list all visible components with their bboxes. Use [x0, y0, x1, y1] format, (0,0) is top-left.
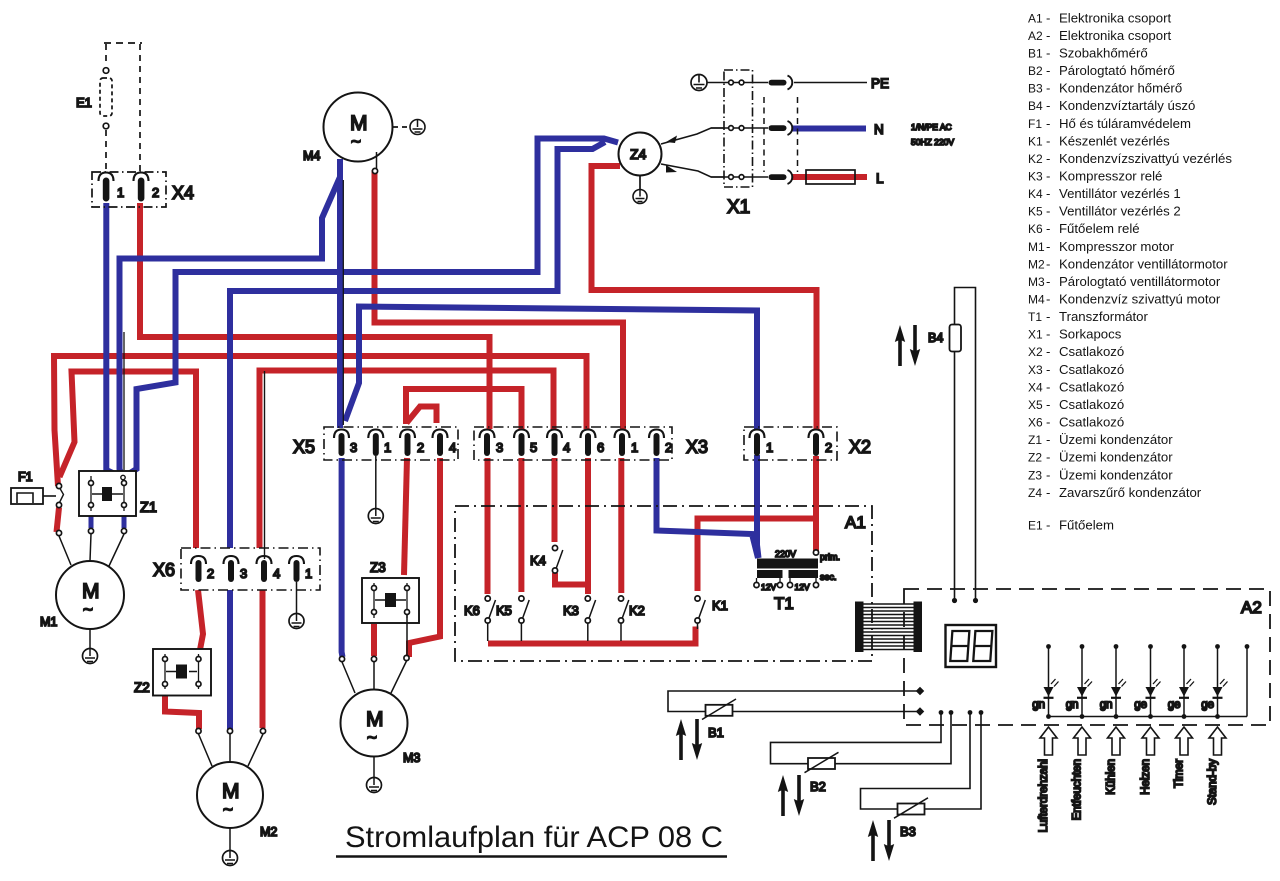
relay contact K5: [496, 596, 529, 641]
wire red jumper X5.2 to X5.4: [407, 407, 437, 424]
svg-text:Lufterdrehzahl: Lufterdrehzahl: [1038, 759, 1050, 833]
svg-text:ge: ge: [1168, 699, 1181, 711]
wire red X5.4 to M3 right: [409, 458, 440, 657]
wire blue M4 branch to Z1 node via bus: [120, 159, 341, 478]
LED return wire: [1245, 644, 1250, 716]
svg-text:K3-Kompresszor relé: K3-Kompresszor relé: [1028, 169, 1162, 184]
svg-text:Z4: Z4: [630, 146, 647, 162]
svg-text:K2-Kondenzvízszivattyú vezérlé: K2-Kondenzvízszivattyú vezérlés: [1028, 151, 1232, 166]
svg-text:M1-Kompresszor motor: M1-Kompresszor motor: [1028, 239, 1175, 254]
indicator arrow Timer: [1176, 727, 1193, 755]
capacitor Z4: [619, 128, 725, 189]
wire red Z3 to M3 mid: [371, 624, 377, 656]
svg-text:gn: gn: [1100, 699, 1113, 711]
wire red F1 to M1 left: [57, 508, 60, 533]
svg-text:E1: E1: [76, 95, 92, 110]
wire red X3.4 to K4: [552, 458, 558, 542]
svg-text:1/N/PE AC: 1/N/PE AC: [911, 122, 952, 132]
svg-text:A1: A1: [845, 513, 866, 532]
connector X6: [153, 371, 320, 613]
sensor loop B3: [861, 710, 984, 809]
transformer core coupling coil: [855, 602, 922, 653]
svg-text:K3: K3: [563, 603, 579, 618]
svg-text:X4: X4: [172, 183, 194, 203]
svg-text:Z3: Z3: [370, 560, 386, 575]
svg-text:X1-Sorkapocs: X1-Sorkapocs: [1028, 327, 1122, 342]
svg-text:Stromlaufplan für ACP 08 C: Stromlaufplan für ACP 08 C: [345, 821, 723, 854]
terminal block X1: [707, 70, 954, 218]
svg-text:X2-Csatlakozó: X2-Csatlakozó: [1028, 344, 1124, 359]
svg-text:1: 1: [117, 185, 124, 200]
black wire M4 to X5.3 companion: [342, 180, 344, 425]
svg-text:K1: K1: [712, 598, 728, 613]
sensor wires B4 to A2: [952, 288, 978, 604]
motor M4: [303, 93, 409, 174]
thermistor B1: [702, 699, 736, 740]
airflow arrows B2: [778, 775, 804, 816]
svg-text:gn: gn: [1032, 699, 1045, 711]
relay contact K2: [618, 596, 645, 641]
svg-text:L: L: [876, 171, 884, 186]
connector X4: [92, 172, 194, 207]
svg-text:220V: 220V: [775, 549, 796, 559]
wire red K1 to T1 node: [698, 519, 815, 592]
ground M3: [367, 778, 382, 793]
svg-text:3: 3: [496, 440, 503, 455]
LED cathode bus: [1049, 716, 1248, 718]
indicator arrow Heizen: [1142, 727, 1159, 755]
wire blue M4 down to X5.3: [337, 159, 343, 428]
svg-text:gn: gn: [1066, 699, 1079, 711]
ground X1 PE: [691, 75, 707, 91]
svg-text:B2-Párologtató hőmérő: B2-Párologtató hőmérő: [1028, 63, 1175, 78]
connector X3: [474, 427, 708, 460]
airflow arrows B3: [868, 820, 894, 861]
wire red X3.6 to K3: [585, 458, 591, 594]
wire red X3.3 to K6: [485, 458, 491, 594]
svg-text:12V: 12V: [795, 582, 810, 592]
svg-text:Timer: Timer: [1174, 759, 1186, 788]
LED D6 ge Stand-by: [1201, 644, 1227, 719]
svg-text:2: 2: [825, 440, 832, 455]
svg-text:4: 4: [449, 440, 456, 455]
motor M2: [196, 728, 278, 850]
svg-text:~: ~: [83, 600, 93, 619]
ground M1: [83, 649, 98, 664]
svg-text:Entfeuchten: Entfeuchten: [1072, 759, 1084, 820]
wire red X5.2 to Z3: [404, 458, 407, 575]
svg-text:B4: B4: [928, 331, 943, 345]
svg-text:6: 6: [597, 440, 604, 455]
sensor loop B2: [771, 710, 954, 764]
wire blue X4.1 to Z1 node: [106, 203, 122, 478]
svg-text:~: ~: [367, 728, 377, 747]
svg-text:T1-Transzformátor: T1-Transzformátor: [1028, 309, 1149, 324]
svg-text:M4: M4: [303, 149, 320, 163]
svg-text:Heizen: Heizen: [1140, 759, 1152, 795]
ground Z4: [633, 190, 647, 204]
relay contact K6: [464, 596, 496, 641]
thermistor B3: [894, 798, 928, 839]
wire red Z4 to X2.2 via bus: [592, 166, 817, 429]
sensor loop B1: [668, 687, 924, 716]
transformer T1: [754, 549, 840, 613]
svg-text:B1: B1: [708, 725, 724, 740]
svg-text:12V: 12V: [761, 582, 776, 592]
wire blue X5.3 to M3 left: [339, 458, 346, 657]
fuse F1: [11, 470, 64, 508]
svg-text:T1: T1: [774, 594, 794, 613]
relay contact K4: [530, 545, 563, 573]
svg-text:X6: X6: [153, 560, 175, 580]
svg-text:X6-Csatlakozó: X6-Csatlakozó: [1028, 415, 1124, 430]
wire blue Z1 stub right: [122, 507, 127, 528]
svg-text:X5-Csatlakozó: X5-Csatlakozó: [1028, 397, 1124, 412]
motor M3: [339, 655, 420, 777]
svg-text:Z3-Üzemi kondenzátor: Z3-Üzemi kondenzátor: [1028, 467, 1173, 482]
svg-text:A2-Elektronika csoport: A2-Elektronika csoport: [1028, 28, 1171, 43]
LED D3 gn Kühlen: [1100, 644, 1126, 719]
svg-text:X3: X3: [686, 437, 708, 457]
wire blue X1 N line: [792, 126, 866, 132]
svg-text:3: 3: [240, 566, 247, 581]
svg-text:sec.: sec.: [820, 572, 837, 582]
svg-text:~: ~: [351, 132, 361, 151]
svg-text:1: 1: [631, 440, 638, 455]
ground M2: [223, 851, 238, 866]
svg-text:1: 1: [766, 440, 773, 455]
svg-text:X3-Csatlakozó: X3-Csatlakozó: [1028, 362, 1124, 377]
svg-text:B2: B2: [810, 779, 826, 794]
svg-text:K4: K4: [530, 553, 546, 568]
wire blue X5.3 to X2.1 via bus: [345, 307, 757, 430]
svg-text:K6: K6: [464, 603, 480, 618]
svg-text:M1: M1: [40, 615, 57, 629]
wire blue X2.1 to T1 prim: [757, 455, 759, 558]
heating element E1: [76, 43, 142, 172]
title Stromlaufplan: [336, 821, 727, 857]
wire red M4 to X3.1 via bus: [375, 170, 624, 429]
svg-text:50HZ 220V: 50HZ 220V: [911, 137, 954, 147]
svg-text:ge: ge: [1134, 699, 1147, 711]
wire red X3.1 to K2: [618, 458, 624, 593]
ground X6.1: [289, 614, 304, 629]
LED D1 gn Lufterdrehzahl: [1032, 644, 1058, 719]
indicator arrow Entfeuchten: [1074, 727, 1091, 755]
svg-text:3: 3: [350, 440, 357, 455]
ground M4: [410, 120, 425, 135]
svg-text:B3: B3: [900, 824, 916, 839]
wire L red X4.2 to X3.3 via bus: [140, 203, 490, 429]
LED D2 gn Entfeuchten: [1066, 644, 1092, 719]
svg-text:prim.: prim.: [820, 552, 840, 562]
wire red jumper K4 to K3: [555, 573, 586, 585]
indicator arrow Kühlen: [1108, 727, 1125, 755]
svg-text:1: 1: [305, 566, 312, 581]
relay contact K3: [563, 596, 596, 641]
svg-text:B1-Szobakhőmérő: B1-Szobakhőmérő: [1028, 46, 1148, 61]
svg-text:K1-Készenlét vezérlés: K1-Készenlét vezérlés: [1028, 133, 1170, 148]
ground X5.1: [368, 509, 383, 524]
svg-text:A2: A2: [1241, 598, 1262, 617]
wire red F1 to X3.6 via bus: [54, 356, 587, 486]
thermistor B4: [928, 325, 961, 352]
wire red X6.4 to X3.4 via bus: [260, 371, 554, 549]
svg-text:Z1-Üzemi kondenzátor: Z1-Üzemi kondenzátor: [1028, 432, 1173, 447]
svg-text:~: ~: [223, 800, 233, 819]
wire blue X6.3 to M2 mid: [227, 590, 233, 729]
airflow arrows B1: [676, 719, 702, 760]
svg-text:M2-Kondenzátor ventillátormoto: M2-Kondenzátor ventillátormotor: [1028, 256, 1228, 271]
capacitor Z3: [362, 560, 419, 655]
svg-text:Z2: Z2: [134, 680, 150, 695]
svg-text:M3: M3: [403, 751, 420, 765]
svg-text:F1: F1: [18, 470, 33, 484]
svg-text:Z2-Üzemi kondenzátor: Z2-Üzemi kondenzátor: [1028, 450, 1173, 465]
svg-text:2: 2: [417, 440, 424, 455]
svg-text:X2: X2: [849, 437, 871, 457]
capacitor Z2: [134, 649, 211, 696]
indicator arrow Lufterdrehzahl: [1040, 727, 1057, 755]
motor M1: [40, 528, 127, 648]
svg-text:Stand-by: Stand-by: [1207, 759, 1219, 805]
legend: [1028, 10, 1232, 532]
wire red Z2 to M2 left: [165, 685, 199, 729]
svg-text:5: 5: [530, 440, 537, 455]
wire red X6.4 to M2 right: [260, 590, 266, 728]
svg-text:2: 2: [207, 566, 214, 581]
electronics board A1: [455, 506, 872, 661]
svg-text:Kühlen: Kühlen: [1106, 759, 1118, 795]
connector X2: [744, 427, 871, 460]
wire red X2.2 to T1 prim: [813, 456, 819, 551]
relay contact K1: [695, 596, 728, 629]
wire blue Z4 to X6.3 via bus: [230, 142, 605, 548]
svg-text:K2: K2: [629, 603, 645, 618]
svg-text:ge: ge: [1201, 699, 1214, 711]
thermistor B2: [805, 752, 839, 794]
wire red X6.2 to Z2: [198, 590, 203, 655]
wire red F1 to X6.2 via bus: [60, 372, 197, 549]
connector X5: [293, 427, 458, 508]
svg-text:M2: M2: [260, 825, 277, 839]
wire red X5.2 to X3.5 via bus: [406, 389, 522, 429]
svg-text:X5: X5: [293, 437, 315, 457]
svg-text:4: 4: [563, 440, 570, 455]
svg-text:2: 2: [152, 185, 159, 200]
wire blue X3.2 to T1 prim: [657, 458, 759, 558]
svg-text:N: N: [874, 122, 884, 137]
svg-text:1: 1: [384, 440, 391, 455]
LED D4 ge Heizen: [1134, 644, 1160, 719]
wire blue Z4 to Z1 node via bus: [123, 139, 618, 478]
svg-text:E1-Fűtőelem: E1-Fűtőelem: [1028, 518, 1114, 533]
electronics board A2: [904, 589, 1270, 725]
wire red X1 L line: [792, 174, 867, 180]
LED D5 ge Timer: [1168, 644, 1194, 719]
svg-text:X4-Csatlakozó: X4-Csatlakozó: [1028, 379, 1124, 394]
svg-text:2: 2: [665, 440, 672, 455]
airflow arrows B4: [895, 325, 920, 366]
wire blue Z1 stub left: [89, 507, 94, 528]
svg-text:K5: K5: [496, 603, 512, 618]
display U1: [946, 625, 997, 667]
indicator arrow Stand-by: [1209, 727, 1226, 755]
wire red X3.5 to K5: [518, 458, 524, 592]
svg-text:4: 4: [273, 566, 280, 581]
svg-text:PE: PE: [871, 76, 889, 91]
svg-text:X1: X1: [727, 197, 750, 218]
svg-text:A1-Elektronika csoport: A1-Elektronika csoport: [1028, 10, 1171, 25]
wire red bus K bottoms to K1: [488, 627, 696, 644]
capacitor Z1: [79, 471, 157, 516]
svg-text:Z1: Z1: [140, 500, 157, 516]
